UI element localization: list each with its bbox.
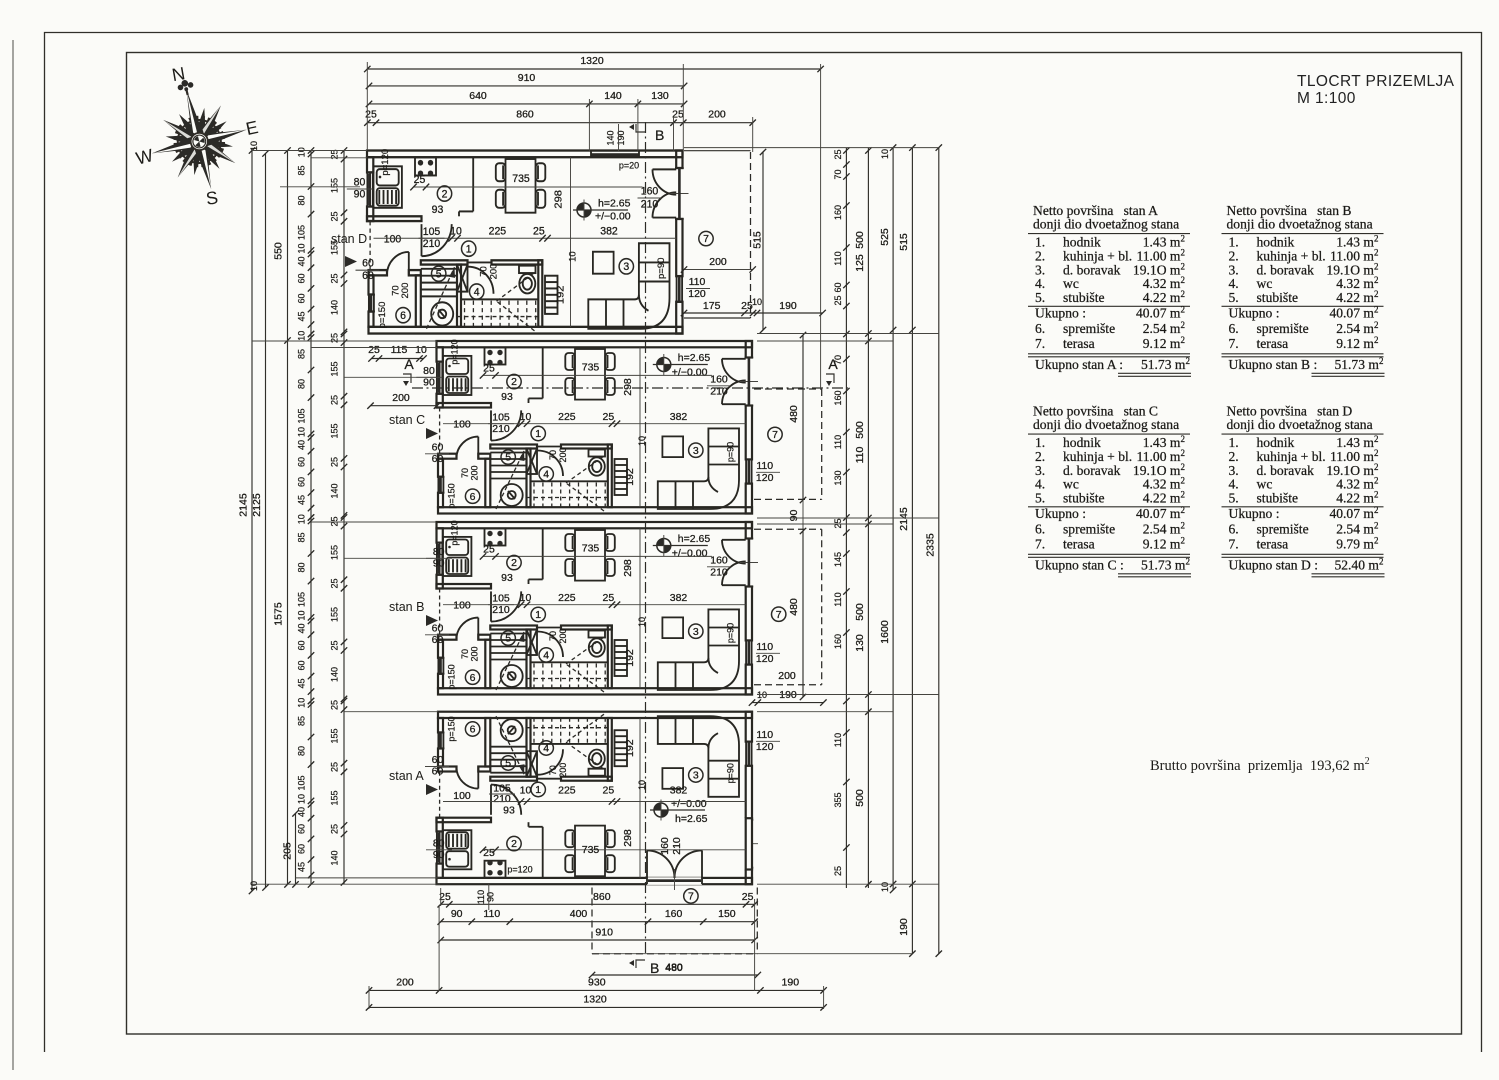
svg-text:155: 155 [330,423,340,438]
svg-text:10: 10 [297,514,307,524]
svg-text:10: 10 [415,344,427,356]
svg-text:4.: 4. [1229,276,1239,291]
svg-text:110: 110 [756,641,773,653]
svg-text:130: 130 [833,470,843,485]
svg-text:60: 60 [432,754,444,766]
svg-text:1575: 1575 [273,602,285,626]
svg-text:120: 120 [756,472,774,484]
svg-text:9.12 m2: 9.12 m2 [1336,335,1378,351]
svg-text:500: 500 [854,603,866,621]
svg-text:105: 105 [297,592,307,607]
svg-text:2145: 2145 [238,493,250,517]
compass rose [136,68,258,201]
svg-text:155: 155 [330,607,340,622]
svg-text:p=150: p=150 [377,302,387,329]
svg-text:spremište: spremište [1063,522,1115,537]
svg-text:p=90: p=90 [656,258,666,279]
svg-text:terasa: terasa [1257,536,1289,551]
svg-text:Ukupno :: Ukupno : [1229,506,1280,521]
svg-text:wc: wc [1257,477,1273,492]
svg-text:735: 735 [582,362,600,374]
svg-text:5: 5 [505,452,511,464]
svg-text:480: 480 [788,598,800,616]
svg-text:298: 298 [622,829,634,847]
svg-text:1.: 1. [1229,435,1239,450]
svg-text:190: 190 [616,130,626,145]
svg-text:4.22 m2: 4.22 m2 [1143,289,1185,305]
svg-text:p=150: p=150 [447,664,457,689]
svg-text:155: 155 [330,361,340,376]
svg-text:100: 100 [453,790,471,802]
svg-text:160: 160 [833,634,843,649]
svg-text:40: 40 [297,807,307,817]
svg-text:60: 60 [432,442,444,454]
svg-text:6.: 6. [1035,321,1045,336]
svg-text:40.07 m2: 40.07 m2 [1136,305,1185,321]
svg-text:192: 192 [624,739,636,757]
svg-text:85: 85 [297,165,307,175]
svg-text:93: 93 [501,572,513,584]
svg-text:wc: wc [1257,276,1273,291]
page edge shadow [12,40,14,1070]
svg-text:11.00 m2: 11.00 m2 [1330,448,1379,464]
svg-text:25: 25 [833,295,843,305]
svg-text:25: 25 [603,411,615,423]
svg-text:90: 90 [433,849,445,861]
svg-text:7.: 7. [1035,336,1045,351]
svg-text:70: 70 [460,649,470,659]
svg-text:7: 7 [772,429,778,441]
svg-text:p=90: p=90 [726,623,736,643]
svg-text:3: 3 [693,770,699,782]
section line B bottom marker [636,960,645,968]
svg-text:+/−0.00: +/−0.00 [672,367,708,379]
svg-text:110: 110 [756,460,773,472]
svg-text:5.: 5. [1035,491,1045,506]
svg-text:7.: 7. [1229,336,1239,351]
bottom dimension chains [441,903,755,905]
svg-text:190: 190 [779,689,797,701]
unit D top wall window [591,151,639,157]
svg-text:110: 110 [483,908,500,920]
svg-text:kuhinja + bl.: kuhinja + bl. [1063,248,1132,263]
svg-text:110: 110 [854,446,866,463]
svg-text:donji dio dvoetažnog stana: donji dio dvoetažnog stana [1033,216,1179,231]
svg-text:1.: 1. [1035,435,1045,450]
svg-text:donji dio dvoetažnog stana: donji dio dvoetažnog stana [1227,216,1373,231]
svg-text:40.07 m2: 40.07 m2 [1329,305,1378,321]
svg-text:400: 400 [570,908,588,920]
svg-text:120: 120 [688,288,706,300]
svg-text:25: 25 [603,592,615,604]
svg-text:10: 10 [297,610,307,620]
svg-text:200: 200 [470,465,480,480]
svg-text:4.: 4. [1229,477,1239,492]
svg-text:terasa: terasa [1063,336,1095,351]
svg-text:terasa: terasa [1063,536,1095,551]
svg-text:spremište: spremište [1063,321,1115,336]
svg-text:90: 90 [788,510,800,522]
svg-text:192: 192 [624,468,636,486]
svg-text:500: 500 [854,231,866,249]
svg-text:355: 355 [833,792,843,807]
svg-text:115: 115 [391,344,408,356]
svg-text:500: 500 [854,789,866,807]
svg-text:19.1O m2: 19.1O m2 [1326,462,1378,478]
svg-text:70: 70 [833,355,843,365]
svg-text:105: 105 [297,775,307,790]
svg-text:40: 40 [297,440,307,450]
svg-text:910: 910 [595,927,613,939]
svg-text:3: 3 [693,445,699,457]
svg-text:200: 200 [558,763,568,778]
svg-text:735: 735 [582,543,600,555]
svg-text:100: 100 [453,600,471,612]
svg-text:225: 225 [489,225,507,237]
svg-text:190: 190 [898,918,910,936]
svg-text:+/−0.00: +/−0.00 [671,798,707,810]
svg-text:M 1:100: M 1:100 [1297,90,1356,107]
svg-text:60: 60 [297,457,307,467]
svg-text:155: 155 [330,178,340,193]
svg-text:155: 155 [330,545,340,560]
svg-text:60: 60 [297,844,307,854]
svg-text:10: 10 [880,882,890,892]
svg-text:382: 382 [670,411,688,423]
svg-text:d. boravak: d. boravak [1257,262,1315,277]
svg-text:210: 210 [710,386,728,398]
svg-text:200: 200 [400,283,410,299]
svg-text:60: 60 [297,640,307,650]
svg-text:298: 298 [622,378,634,396]
svg-text:4.: 4. [1035,276,1045,291]
svg-text:200: 200 [470,646,480,661]
svg-text:70: 70 [548,765,558,775]
svg-text:4.32 m2: 4.32 m2 [1336,476,1378,492]
svg-text:93: 93 [432,204,444,216]
svg-text:2.54 m2: 2.54 m2 [1143,320,1185,336]
svg-text:5: 5 [505,633,511,645]
svg-text:110: 110 [833,435,843,449]
svg-text:7.: 7. [1229,536,1239,551]
svg-text:60: 60 [297,660,307,670]
svg-text:4.32 m2: 4.32 m2 [1143,275,1185,291]
svg-text:donji dio dvoetažnog stana: donji dio dvoetažnog stana [1033,417,1179,432]
svg-text:wc: wc [1063,477,1079,492]
svg-text:60: 60 [432,623,444,635]
svg-text:2.: 2. [1035,449,1045,464]
svg-text:90: 90 [423,377,435,389]
svg-text:190: 190 [779,300,797,312]
svg-text:4: 4 [543,650,549,662]
window unit D right wall dim [684,312,823,314]
svg-text:210: 210 [493,793,511,805]
svg-text:p=150: p=150 [447,716,457,741]
svg-text:45: 45 [297,495,307,505]
svg-text:4.: 4. [1035,477,1045,492]
svg-text:85: 85 [297,349,307,359]
svg-text:85: 85 [297,716,307,726]
svg-text:4.22 m2: 4.22 m2 [1336,490,1378,506]
svg-text:p=90: p=90 [726,442,736,462]
svg-text:80: 80 [297,746,307,756]
svg-text:200: 200 [489,264,499,280]
unit A balcony door in bottom wall [647,877,702,885]
right leader lines [684,147,939,149]
svg-text:1600: 1600 [879,620,891,644]
svg-text:45: 45 [297,862,307,872]
svg-text:hodnik: hodnik [1257,435,1295,450]
svg-text:Ukupno stan A :: Ukupno stan A : [1035,357,1123,372]
svg-text:3.: 3. [1035,463,1045,478]
svg-text:200: 200 [558,447,568,462]
svg-text:70: 70 [391,285,401,296]
svg-text:6: 6 [470,724,476,736]
svg-text:6.: 6. [1035,522,1045,537]
svg-text:4.32 m2: 4.32 m2 [1336,275,1378,291]
svg-text:225: 225 [558,592,576,604]
svg-text:Ukupno :: Ukupno : [1035,506,1086,521]
svg-text:4.22 m2: 4.22 m2 [1336,289,1378,305]
svg-text:60: 60 [297,824,307,834]
svg-text:1320: 1320 [580,55,604,67]
svg-text:70: 70 [460,468,470,478]
svg-text:3.: 3. [1035,262,1045,277]
svg-text:+/−0.00: +/−0.00 [595,211,631,223]
svg-text:85: 85 [297,532,307,542]
svg-text:100: 100 [453,419,471,431]
svg-text:140: 140 [606,130,616,145]
svg-text:6: 6 [470,672,476,684]
svg-text:Ukupno :: Ukupno : [1035,306,1086,321]
svg-text:382: 382 [670,785,688,797]
svg-text:140: 140 [604,90,622,102]
svg-text:kuhinja + bl.: kuhinja + bl. [1257,449,1326,464]
svg-text:192: 192 [624,649,636,667]
svg-text:225: 225 [558,411,576,423]
svg-text:60: 60 [833,282,843,292]
svg-text:25: 25 [330,211,340,221]
top extension lines [366,62,368,150]
svg-text:25: 25 [330,578,340,588]
svg-text:5.: 5. [1035,290,1045,305]
svg-text:80: 80 [433,546,445,558]
svg-text:hodnik: hodnik [1063,235,1101,250]
svg-text:2.54 m2: 2.54 m2 [1143,521,1185,537]
svg-text:225: 225 [558,785,576,797]
svg-text:10: 10 [752,297,762,307]
svg-text:2.: 2. [1229,449,1239,464]
svg-text:155: 155 [330,790,340,805]
svg-text:60: 60 [432,453,444,465]
svg-text:d. boravak: d. boravak [1063,463,1121,478]
svg-text:10: 10 [249,881,259,891]
svg-text:10: 10 [297,331,307,341]
svg-text:140: 140 [330,667,340,682]
svg-text:525: 525 [879,228,891,246]
svg-text:155: 155 [330,728,340,743]
svg-text:2: 2 [442,188,448,200]
svg-text:25: 25 [833,866,843,876]
svg-text:70: 70 [548,631,558,641]
svg-text:80: 80 [423,365,435,377]
svg-text:4: 4 [543,469,549,481]
svg-text:5: 5 [505,758,511,770]
svg-text:1: 1 [535,609,541,621]
svg-text:145: 145 [833,552,843,567]
svg-text:h=2.65: h=2.65 [678,352,711,364]
svg-text:93: 93 [501,391,513,403]
svg-text:45: 45 [297,678,307,688]
svg-text:200: 200 [709,256,727,268]
svg-text:1.43 m2: 1.43 m2 [1143,234,1185,250]
svg-text:11.00 m2: 11.00 m2 [1330,247,1379,263]
svg-text:3.: 3. [1229,262,1239,277]
svg-text:25: 25 [368,344,380,356]
svg-text:105: 105 [297,225,307,240]
svg-text:h=2.65: h=2.65 [598,198,631,210]
svg-text:110: 110 [833,251,843,265]
svg-text:25: 25 [330,273,340,283]
svg-text:200: 200 [396,977,414,989]
svg-text:25: 25 [330,457,340,467]
svg-text:1: 1 [466,243,472,255]
svg-text:52.40 m2: 52.40 m2 [1334,556,1383,572]
svg-text:hodnik: hodnik [1257,235,1295,250]
svg-text:1: 1 [535,784,541,796]
svg-text:p=90: p=90 [726,763,736,783]
svg-text:10: 10 [297,427,307,437]
svg-text:205: 205 [282,842,294,860]
svg-text:160: 160 [710,374,728,386]
svg-text:1.: 1. [1035,235,1045,250]
svg-text:160: 160 [833,205,843,220]
svg-text:160: 160 [833,390,843,405]
svg-text:p=120: p=120 [507,865,532,875]
svg-text:25: 25 [742,891,754,903]
svg-text:hodnik: hodnik [1063,435,1101,450]
svg-text:25: 25 [603,785,615,797]
svg-text:860: 860 [516,109,534,121]
svg-text:7: 7 [776,609,782,621]
section line B-B vertical [645,122,647,953]
unit C geometry [436,341,758,514]
svg-text:10: 10 [297,147,307,157]
left dimension columns [251,151,253,892]
svg-text:25: 25 [330,516,340,526]
svg-text:6.: 6. [1229,522,1239,537]
svg-text:3: 3 [623,261,629,273]
svg-text:2.: 2. [1035,248,1045,263]
svg-text:p=120: p=120 [450,339,460,364]
svg-text:B: B [650,960,659,976]
svg-text:105: 105 [297,408,307,423]
svg-text:70: 70 [479,266,489,277]
svg-text:200: 200 [708,109,726,121]
svg-text:105: 105 [492,593,510,605]
bottom extension lines [368,986,370,1009]
step dimension 25 115 10 [372,358,424,360]
svg-text:40: 40 [297,623,307,633]
svg-text:160: 160 [710,555,728,567]
svg-text:25: 25 [330,640,340,650]
svg-text:1.: 1. [1229,235,1239,250]
svg-text:7: 7 [703,233,709,245]
svg-text:1.43 m2: 1.43 m2 [1143,434,1185,450]
svg-text:2125: 2125 [251,493,263,517]
section line A-A horizontal [412,387,848,389]
svg-text:105: 105 [423,226,441,238]
svg-text:550: 550 [273,242,285,260]
svg-text:1320: 1320 [583,994,607,1006]
svg-text:210: 210 [423,238,441,250]
svg-text:25: 25 [533,225,545,237]
svg-text:90: 90 [354,188,366,200]
unit D geometry [366,151,688,334]
svg-text:11.00 m2: 11.00 m2 [1136,247,1185,263]
svg-text:110: 110 [833,733,843,747]
svg-text:175: 175 [703,300,721,312]
svg-text:210: 210 [492,604,510,616]
svg-text:6: 6 [470,491,476,503]
svg-text:kuhinja + bl.: kuhinja + bl. [1063,449,1132,464]
svg-text:spremište: spremište [1257,522,1309,537]
svg-text:110: 110 [689,276,706,288]
svg-text:1.43 m2: 1.43 m2 [1336,234,1378,250]
svg-text:stubište: stubište [1257,491,1299,506]
svg-text:110: 110 [476,890,486,904]
svg-text:160: 160 [665,908,683,920]
terrace A dashed [591,888,593,954]
svg-text:+/−0.00: +/−0.00 [672,548,708,560]
svg-text:10: 10 [297,698,307,708]
svg-text:70: 70 [548,450,558,460]
svg-text:10: 10 [880,149,890,159]
svg-text:45: 45 [297,311,307,321]
svg-text:wc: wc [1063,276,1079,291]
svg-text:2335: 2335 [924,533,936,557]
svg-text:130: 130 [651,90,669,102]
svg-text:4.22 m2: 4.22 m2 [1143,490,1185,506]
dim 515 vertical [762,152,764,330]
svg-text:298: 298 [553,190,565,209]
svg-text:10: 10 [568,251,578,262]
svg-text:25: 25 [330,333,340,343]
svg-text:3.: 3. [1229,463,1239,478]
svg-text:640: 640 [469,90,487,102]
svg-text:160: 160 [641,185,659,197]
svg-text:860: 860 [593,891,611,903]
svg-text:210: 210 [671,837,683,855]
svg-text:4.32 m2: 4.32 m2 [1143,476,1185,492]
svg-text:51.73 m2: 51.73 m2 [1141,356,1190,372]
svg-text:298: 298 [622,559,634,577]
svg-text:210: 210 [710,567,728,579]
svg-text:90: 90 [433,558,445,570]
svg-text:25: 25 [330,700,340,710]
svg-text:h=2.65: h=2.65 [678,533,711,545]
svg-text:480: 480 [788,405,800,423]
svg-text:5: 5 [436,268,442,280]
svg-text:60: 60 [297,293,307,303]
svg-text:p=120: p=120 [380,149,390,176]
svg-text:150: 150 [718,908,736,920]
svg-text:spremište: spremište [1257,321,1309,336]
svg-text:51.73 m2: 51.73 m2 [1334,356,1383,372]
svg-text:60: 60 [362,270,374,282]
svg-text:515: 515 [898,233,910,251]
svg-text:stan B: stan B [389,600,424,614]
